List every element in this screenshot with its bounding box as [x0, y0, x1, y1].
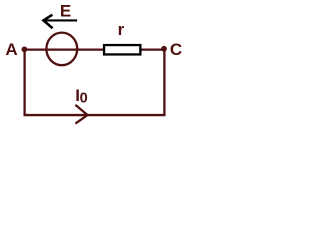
wire left + bottom + right loop	[25, 49, 165, 115]
current I0 arrow (chevron on bottom wire)	[75, 105, 87, 124]
svg-text:0: 0	[80, 91, 88, 107]
wire top (node A to node C)	[22, 48, 164, 50]
EMF direction arrow (black, pointing left)	[43, 15, 77, 29]
node C dot	[161, 46, 167, 52]
svg-text:A: A	[5, 40, 17, 59]
svg-text:r: r	[118, 20, 125, 39]
EMF source (circle symbol)	[46, 33, 77, 66]
svg-text:C: C	[170, 40, 182, 59]
resistor r (box)	[104, 45, 140, 54]
node A dot	[22, 46, 28, 52]
svg-text:E: E	[60, 2, 71, 21]
